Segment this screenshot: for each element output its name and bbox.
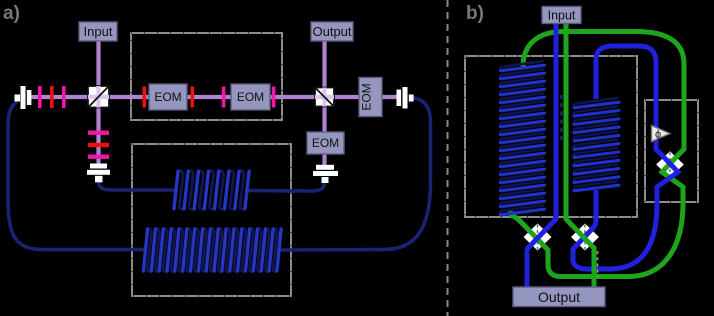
panel separator dashed line [447,0,449,316]
enclosure box for fiber delay coils (panel a) [132,144,291,296]
waveplate red (EOM1 right) [191,87,195,108]
fiber wire: right collimator around right side to bottom coil right end [279,98,431,250]
free-space beam horizontal (panel a) [30,95,398,99]
fiber wire: lower collimator to top coil left end [99,181,177,190]
enclosure box for delay coils (panel b) [465,56,637,217]
fiber delay coil right (panel b) [573,98,619,191]
EOM 3 (rotated) [359,78,382,117]
svg-text:b): b) [466,3,484,24]
waveplate magenta (left arm 1) [38,86,42,108]
fiber delay coil (panel a top, short) [174,171,249,209]
dashed marker beside input green fiber [560,95,562,143]
waveplate magenta (down arm 2) [88,155,109,159]
EOM 4 [307,132,344,154]
enclosure box for EOM pair (panel a) [131,33,282,120]
waveplate red (EOM1 left) [143,87,147,108]
svg-text:Output: Output [312,24,351,39]
fiber wire: EOM collimator to top coil right end [247,182,325,191]
beam: PBS2 down through EOM to collimator [322,106,326,168]
blue fiber: right coil top, arc, phase modulator, coupler3, sweep, coupler2, right coil bottom [573,46,678,269]
label box Output (panel a) [311,22,353,41]
svg-text:EOM: EOM [237,90,264,104]
enclosure box for recirculation loop (panel b) [645,100,698,202]
mirror collimator (below EOM4) [313,165,338,183]
mirror collimator (below PBS1) [87,164,110,183]
beam: Output to PBS2 [322,40,326,88]
beam: PBS1 down to lower collimator [96,107,100,166]
fiber coupler 1 diamond [524,224,552,251]
svg-text:EOM: EOM [312,136,339,150]
waveplate magenta (left arm 2) [62,86,66,108]
blue fiber: Input through coupler1 to Output [527,23,556,287]
fiber coupler 2 diamond [571,224,599,251]
waveplate magenta (EOM2 left) [222,87,226,108]
mirror collimator (right end) [397,87,414,109]
PBS cube 2 [315,88,334,107]
label box Input (panel b) [542,7,581,24]
green fiber: left coil top, arc, coupler3, sweep, coupler1, left coil bottom [510,32,684,277]
green fiber: Input through coupler2 to Output [566,23,594,287]
svg-text:a): a) [3,3,20,24]
fiber delay coil (panel a bottom, long) [143,229,281,272]
fiber delay coil left (panel b) [500,61,545,215]
mirror collimator (left end) [15,86,32,109]
svg-text:EOM: EOM [360,83,374,110]
fiber wire: left mirror collimator around left side to bottom coil left end [8,102,146,250]
svg-text:Output: Output [538,289,580,305]
PBS cube 1 [88,86,109,108]
svg-text:Input: Input [84,24,113,39]
EOM 2 [231,84,270,110]
svg-text:EOM: EOM [154,90,181,104]
svg-text:ϕ: ϕ [655,129,661,141]
label box Output (panel b) [513,287,605,307]
dashed marker below coupler 2 [597,251,599,277]
EOM 1 [149,84,187,110]
beam: Input to PBS1 [96,40,100,87]
phase modulator triangle [652,126,671,142]
waveplate magenta (EOM2 right) [272,87,276,108]
waveplate red (left arm) [50,86,54,108]
label box Input (panel a) [79,22,117,41]
svg-text:Input: Input [548,9,576,23]
waveplate red (down arm) [88,143,109,147]
waveplate magenta (down arm 1) [88,131,109,135]
fiber coupler 3 diamond [656,151,684,178]
